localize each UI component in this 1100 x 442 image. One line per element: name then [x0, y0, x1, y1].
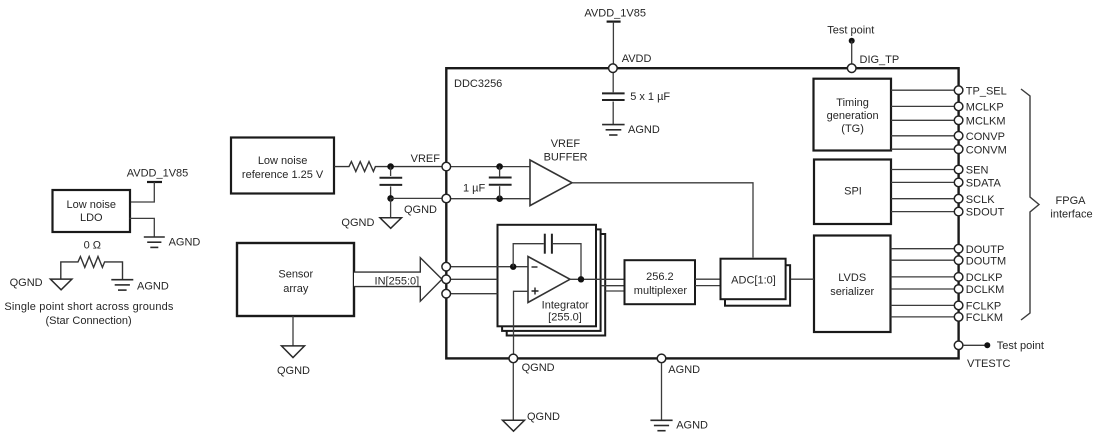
svg-text:AGND: AGND [676, 419, 708, 431]
wire QGND node down [390, 198, 392, 217]
pin IN 2 [442, 275, 451, 284]
wire IN line 2 [451, 278, 498, 280]
svg-text:ADC[1:0]: ADC[1:0] [731, 274, 776, 286]
wire LVDS to FCLKP [891, 304, 955, 306]
pin TP_SEL [954, 86, 963, 95]
svg-text:AVDD_1V85: AVDD_1V85 [127, 168, 189, 180]
pin VTESTC [954, 341, 963, 350]
svg-text:DDC3256: DDC3256 [454, 78, 502, 90]
svg-text:AGND: AGND [169, 237, 201, 249]
svg-text:AGND: AGND [137, 280, 169, 292]
svg-text:DOUTM: DOUTM [966, 255, 1006, 267]
svg-text:AVDD: AVDD [622, 53, 652, 65]
svg-text:DCLKM: DCLKM [966, 284, 1005, 296]
svg-text:1 µF: 1 µF [463, 182, 486, 194]
wire LVDS to DOUTM [891, 259, 955, 261]
ground AGND (top cap) [602, 125, 625, 135]
pin CONVM [954, 145, 963, 154]
wire TG to CONVP [891, 135, 954, 137]
wire LDO to AVDD_1V85 rail [130, 182, 155, 202]
wire AGND pin to ground (bottom) [661, 363, 663, 421]
pin VREF [442, 162, 451, 171]
brace FPGA interface [1021, 89, 1039, 320]
wire sensor array to QGND [292, 316, 294, 346]
pin SDATA [954, 178, 963, 187]
svg-text:DIG_TP: DIG_TP [860, 54, 900, 66]
wire SPI to SDATA [891, 181, 954, 183]
pin SEN [954, 165, 963, 174]
svg-text:AVDD_1V85: AVDD_1V85 [584, 8, 646, 20]
pin QGND (left) [442, 194, 451, 203]
pin AVDD [609, 64, 618, 73]
ground QGND triangle (star point) [50, 279, 72, 290]
svg-text:DOUTP: DOUTP [966, 244, 1005, 256]
wire TG to TP_SEL [891, 89, 954, 91]
svg-text:generation: generation [827, 110, 879, 122]
svg-text:Integrator: Integrator [542, 300, 589, 312]
svg-text:VTESTC: VTESTC [967, 358, 1010, 370]
wire SPI to SDOUT [891, 211, 954, 213]
integrator stack box 3 [507, 234, 606, 336]
junction VREF node [387, 163, 394, 170]
svg-text:(Star Connection): (Star Connection) [45, 315, 131, 327]
pin QGND (bottom) [509, 354, 518, 363]
wire TG to MCLKM [891, 119, 954, 121]
svg-text:IN[255:0]: IN[255:0] [375, 276, 420, 288]
resistor R 0 ohm [61, 257, 123, 280]
svg-text:MCLKP: MCLKP [966, 102, 1004, 114]
pin DCLKP [954, 273, 963, 282]
wire QGND node to chip QGND pin [391, 197, 442, 199]
svg-text:Timing: Timing [836, 97, 869, 109]
bus wire integrator 2 to multiplexer [601, 285, 625, 287]
power rail AVDD_1V85 (top) [584, 8, 646, 22]
svg-text:BUFFER: BUFFER [544, 152, 588, 164]
wire AVDD rail to AVDD pin [612, 22, 614, 66]
wire op-amp noninverting to QGND pin [514, 291, 529, 354]
svg-text:QGND: QGND [10, 277, 43, 289]
op-amp VREF buffer [530, 138, 588, 205]
svg-text:SEN: SEN [966, 165, 989, 177]
svg-text:SDOUT: SDOUT [966, 207, 1005, 219]
bus wire integrator 3 to multiplexer [605, 290, 624, 292]
svg-text:TP_SEL: TP_SEL [966, 85, 1007, 97]
block ADC[1:0] [721, 259, 786, 300]
resistor (VREF series) [334, 162, 442, 172]
svg-text:Low noise: Low noise [258, 155, 308, 167]
junction QGND node [387, 195, 394, 202]
pin SCLK [954, 194, 963, 203]
wire SPI to SCLK [891, 198, 954, 200]
svg-text:FCLKP: FCLKP [966, 301, 1001, 313]
pin IN 3 [442, 289, 451, 298]
pin MCLKM [954, 116, 963, 125]
junction 1uF bottom [496, 195, 503, 202]
block Sensor array [237, 243, 354, 316]
wire buffer output to ADC [572, 183, 753, 258]
svg-text:MCLKM: MCLKM [966, 115, 1006, 127]
block SPI [814, 160, 891, 225]
svg-text:multiplexer: multiplexer [634, 285, 688, 297]
LDO block Low noise LDO [53, 190, 131, 232]
pin IN 1 [442, 262, 451, 271]
ground QGND triangle (sensor array) [282, 346, 305, 358]
svg-text:QGND: QGND [341, 217, 374, 229]
svg-text:array: array [283, 283, 309, 295]
svg-text:0 Ω: 0 Ω [84, 240, 101, 252]
capacitor 1 uF [463, 167, 512, 199]
wire LVDS to DCLKM [891, 288, 955, 290]
wire TG to MCLKP [891, 105, 954, 107]
VREF buffer input wire (VREF) [451, 166, 530, 168]
svg-text:QGND: QGND [522, 362, 555, 374]
pin DOUTM [954, 256, 963, 265]
VREF buffer input wire (QGND) [451, 198, 530, 200]
ground QGND triangle (reference cap) [380, 218, 402, 229]
wire integrator output to multiplexer [570, 278, 625, 280]
integrator feedback wire right [553, 244, 581, 280]
block 256.2 multiplexer [625, 260, 696, 304]
svg-text:reference 1.25 V: reference 1.25 V [242, 169, 324, 181]
svg-text:(TG): (TG) [841, 123, 864, 135]
svg-text:FCLKM: FCLKM [966, 312, 1003, 324]
svg-text:Low noise: Low noise [67, 199, 117, 211]
bus wire multiplexer to ADC line 2 [695, 285, 721, 287]
block Timing generation (TG) [814, 79, 892, 151]
wire LDO to AGND [130, 218, 155, 237]
caption single point short [4, 301, 174, 327]
wire LVDS to DCLKP [891, 276, 955, 278]
wire QGND pin to ground (bottom) [512, 363, 514, 420]
svg-text:SDATA: SDATA [966, 178, 1002, 190]
pin FCLKP [954, 301, 963, 310]
svg-text:AGND: AGND [668, 364, 700, 376]
svg-text:DCLKP: DCLKP [966, 272, 1003, 284]
svg-text:CONVM: CONVM [966, 144, 1007, 156]
junction integrator input node [510, 264, 516, 270]
svg-text:Sensor: Sensor [278, 269, 313, 281]
wire ADC to LVDS serializer [791, 278, 814, 280]
label Integrator [255.0] [542, 300, 589, 324]
pin DCLKM [954, 285, 963, 294]
block ADC[1:0] shadow [725, 265, 790, 306]
svg-text:serializer: serializer [830, 286, 874, 298]
pin AGND (bottom) [657, 354, 666, 363]
capacitor (VREF decoupling) [380, 167, 403, 199]
svg-text:AGND: AGND [628, 124, 660, 136]
svg-text:VREF: VREF [551, 138, 581, 150]
bus wire multiplexer to ADC line 1 [695, 278, 721, 280]
svg-text:LDO: LDO [80, 212, 103, 224]
svg-text:256.2: 256.2 [646, 271, 674, 283]
pin FCLKM [954, 313, 963, 322]
pin MCLKP [954, 102, 963, 111]
power rail AVDD_1V85 (LDO section) [127, 168, 189, 183]
pin DIG_TP [847, 64, 856, 73]
svg-text:LVDS: LVDS [838, 272, 866, 284]
svg-text:5 x 1 µF: 5 x 1 µF [630, 91, 670, 103]
test point (DIG_TP) [827, 25, 874, 66]
svg-text:CONVP: CONVP [966, 131, 1005, 143]
wire TG to CONVM [891, 148, 954, 150]
junction 1uF top [496, 163, 503, 170]
svg-text:Test point: Test point [997, 340, 1044, 352]
integrator box 1 [498, 225, 597, 326]
svg-text:Single point short across grou: Single point short across grounds [4, 301, 174, 313]
svg-text:SPI: SPI [844, 186, 862, 198]
capacitor 5 x 1 uF [602, 70, 670, 125]
wire LVDS to FCLKM [891, 316, 955, 318]
pin DOUTP [954, 244, 963, 253]
block Low noise reference 1.25 V [231, 138, 334, 194]
svg-text:FPGA: FPGA [1056, 195, 1087, 207]
wire IN line 1 to op-amp inverting input [451, 266, 528, 268]
svg-text:VREF: VREF [411, 153, 441, 165]
wire LVDS to DOUTP [891, 248, 955, 250]
capacitor integrator feedback [545, 234, 552, 254]
ground QGND triangle (bottom) [503, 420, 525, 431]
ground AGND (LDO) [144, 237, 165, 247]
svg-text:QGND: QGND [277, 365, 310, 377]
test point (VTESTC) [963, 340, 1044, 352]
svg-text:QGND: QGND [527, 411, 560, 423]
wire SPI to SEN [891, 169, 954, 171]
svg-text:QGND: QGND [404, 204, 437, 216]
svg-text:[255.0]: [255.0] [548, 311, 582, 323]
op-amp integrator [528, 257, 570, 303]
svg-text:SCLK: SCLK [966, 194, 995, 206]
bus arrow IN[255:0] [354, 258, 442, 302]
integrator feedback wire [513, 244, 544, 267]
integrator stack box 2 [502, 229, 600, 331]
wire IN line 3 [451, 293, 498, 295]
svg-text:Test point: Test point [827, 25, 874, 37]
ground AGND (star point) [111, 280, 133, 290]
chip outline DDC3256 [446, 68, 958, 358]
junction integrator output node [578, 276, 584, 282]
pin CONVP [954, 132, 963, 141]
block LVDS serializer [814, 236, 891, 333]
svg-text:interface: interface [1050, 209, 1092, 221]
ground AGND (bottom) [650, 420, 672, 430]
pin SDOUT [954, 207, 963, 216]
label FPGA interface [1050, 195, 1092, 221]
